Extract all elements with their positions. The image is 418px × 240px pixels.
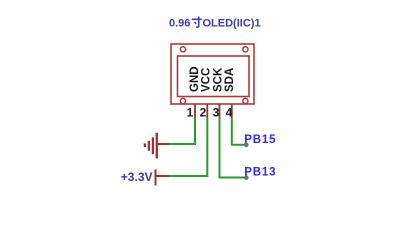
mounting hole circle bottom-right bbox=[243, 98, 248, 103]
svg-text:OLED(IIC)1: OLED(IIC)1 bbox=[203, 18, 261, 30]
ground symbol bbox=[145, 133, 169, 159]
svg-text:+3.3V: +3.3V bbox=[121, 170, 153, 184]
wire pin2 to +3.3V bbox=[169, 118, 207, 176]
svg-text:SDA: SDA bbox=[224, 68, 236, 92]
svg-text:SCK: SCK bbox=[213, 67, 225, 92]
component U? outer body bbox=[171, 44, 254, 104]
pin 4 stub bbox=[231, 104, 233, 118]
mounting hole circle top-left bbox=[180, 47, 185, 52]
svg-text:VCC: VCC bbox=[201, 68, 213, 92]
junction dot PB15 bbox=[244, 143, 249, 148]
svg-text:3: 3 bbox=[213, 106, 220, 120]
mounting hole circle bottom-left bbox=[180, 98, 185, 103]
component inner rectangle bbox=[178, 56, 250, 97]
svg-text:0.96: 0.96 bbox=[169, 18, 190, 30]
junction dot PB13 bbox=[244, 175, 249, 180]
svg-text:4: 4 bbox=[226, 106, 233, 120]
svg-text:1: 1 bbox=[187, 106, 194, 120]
svg-text:GND: GND bbox=[189, 66, 201, 92]
power port +3.3V bar bbox=[156, 169, 170, 185]
svg-text:PB13: PB13 bbox=[244, 167, 276, 179]
svg-text:2: 2 bbox=[200, 106, 207, 120]
wire pin1 to ground bbox=[169, 118, 195, 144]
pin 2 stub bbox=[206, 104, 208, 118]
wire pin3 to PB13 bbox=[220, 118, 247, 178]
pin 3 stub bbox=[219, 104, 221, 118]
svg-text:PB15: PB15 bbox=[244, 134, 276, 146]
wire pin4 to PB15 bbox=[232, 118, 246, 145]
pin 1 stub bbox=[194, 104, 196, 118]
mounting hole circle top-right bbox=[243, 47, 248, 52]
designator 0.96寸OLED(IIC)1 bbox=[169, 17, 261, 30]
